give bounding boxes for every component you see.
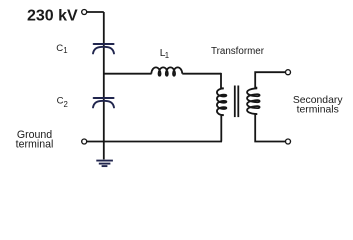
label C1 xyxy=(56,43,67,55)
terminal: secondary lower xyxy=(286,139,291,144)
capacitor C2 xyxy=(93,98,114,107)
transformer core xyxy=(235,86,239,118)
terminal: secondary upper xyxy=(286,70,291,75)
label Ground terminal xyxy=(16,129,54,151)
wire: secondary top lead xyxy=(255,72,285,87)
svg-text:1: 1 xyxy=(165,51,169,60)
label C2 xyxy=(57,96,68,109)
wire: junction to L1 (left segment of top branch) xyxy=(104,73,152,75)
transformer primary winding xyxy=(217,88,226,115)
capacitor C1 xyxy=(93,44,114,53)
svg-text:terminals: terminals xyxy=(297,105,339,116)
inductor L1 xyxy=(151,67,182,75)
label Secondary terminals xyxy=(293,95,343,115)
wire: secondary bottom lead xyxy=(255,114,285,141)
svg-text:1: 1 xyxy=(63,46,67,55)
svg-text:terminal: terminal xyxy=(16,139,54,151)
terminal: 230 kV input xyxy=(82,10,87,15)
ground symbol xyxy=(96,161,113,167)
wire: bottom bus from ground terminal to primary xyxy=(87,141,222,143)
wire: primary loop right side upper xyxy=(221,73,224,88)
wire: top lead from 230 kV terminal xyxy=(87,11,104,13)
svg-text:Transformer: Transformer xyxy=(211,46,265,57)
terminal: ground xyxy=(82,139,87,144)
transformer secondary winding xyxy=(247,88,260,114)
svg-text:230 kV: 230 kV xyxy=(27,8,78,25)
wire: L1 to transformer primary (right segment of top branch) xyxy=(182,73,221,75)
svg-text:2: 2 xyxy=(64,100,68,109)
label L1 xyxy=(160,48,169,60)
wire: main vertical bus through C1 and C2 xyxy=(103,12,105,159)
wire: primary loop right side lower xyxy=(221,115,223,141)
